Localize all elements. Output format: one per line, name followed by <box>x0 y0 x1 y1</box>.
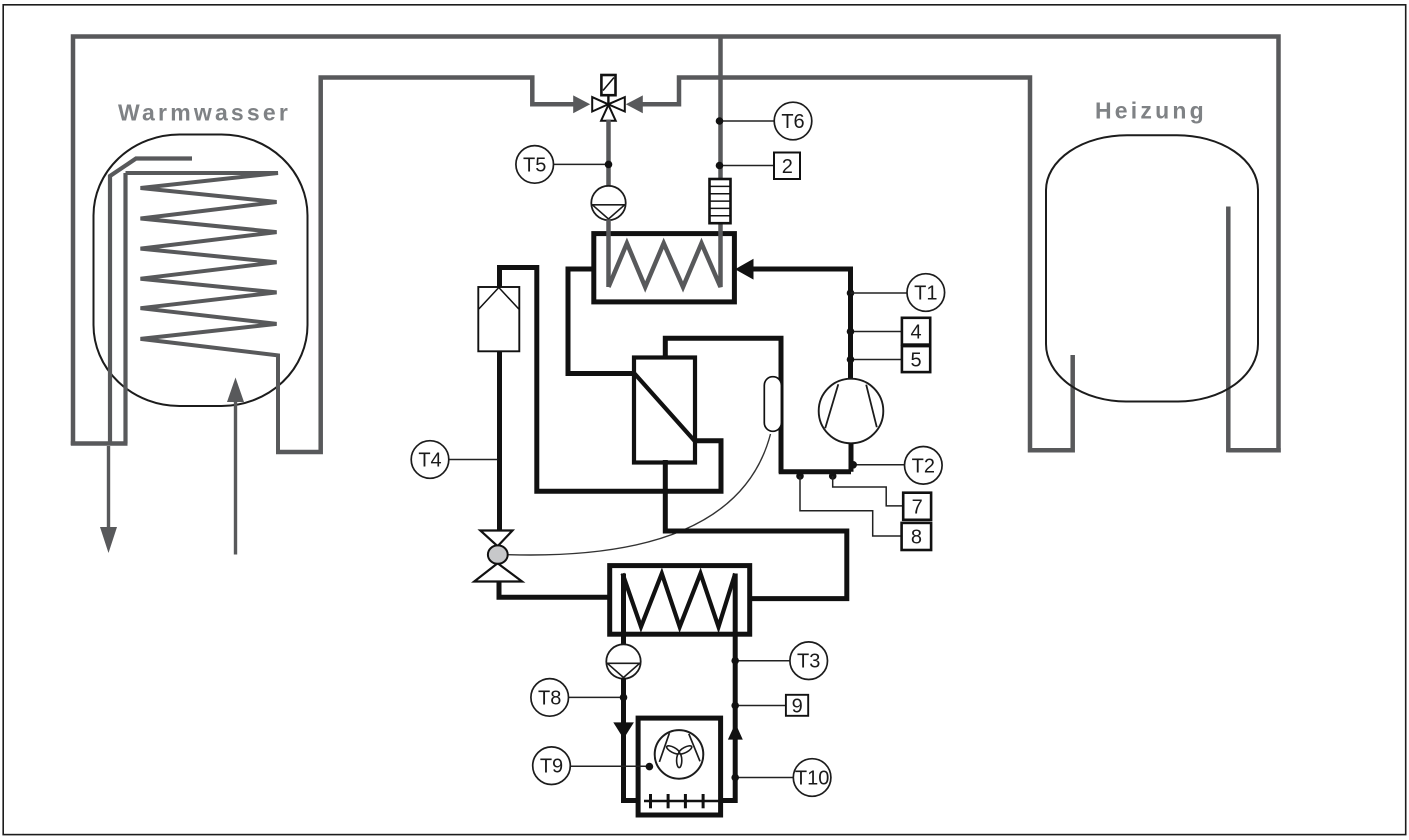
wire coil return pipe <box>123 173 127 444</box>
internal heat exchanger (plate) <box>634 358 695 463</box>
wire evaporator left pipe to pump <box>621 574 626 646</box>
svg-text:4: 4 <box>910 322 921 344</box>
sensor T5 <box>554 163 609 165</box>
svg-text:T6: T6 <box>781 111 804 133</box>
svg-text:2: 2 <box>782 156 793 178</box>
fan propeller <box>666 744 693 767</box>
svg-text:9: 9 <box>792 695 803 717</box>
compressor <box>819 379 884 444</box>
evaporator zigzag <box>623 574 736 627</box>
svg-text:T1: T1 <box>914 283 937 305</box>
expansion valve <box>480 531 512 547</box>
fan unit box <box>638 718 721 815</box>
wire valve to pump (gray) <box>606 120 611 188</box>
component flow switch (ribbed) <box>710 179 731 223</box>
wire hot water supply to valve <box>276 78 576 453</box>
condenser heat exchanger box <box>594 234 735 302</box>
filter drier <box>478 287 519 351</box>
wire expansion valve to evaporator <box>499 582 612 598</box>
evaporator heat exchanger box <box>610 566 750 635</box>
wire evaporator right pipe down <box>720 574 736 801</box>
sensor T1 <box>851 292 908 294</box>
wire Heizung right stub <box>1228 448 1280 453</box>
condenser water zigzag (gray) <box>609 37 721 288</box>
sensor T8 <box>569 696 624 698</box>
valve 3-way: left gray arrow <box>532 102 573 107</box>
sensor T9 <box>570 765 649 767</box>
valve actuator stem <box>607 95 609 104</box>
node 8 dot <box>796 472 804 480</box>
wire Heizung right dip pipe <box>1226 207 1231 453</box>
wire internal HX to compressor suction <box>665 338 781 473</box>
fan circle <box>655 730 704 779</box>
node 4 sensor box <box>851 331 902 333</box>
wire warmwasser bottom stub <box>71 441 128 446</box>
arrow into condenser <box>735 259 754 280</box>
valve 3-way: right gray arrow <box>626 95 643 113</box>
capillary line to bulb <box>506 434 771 555</box>
node 5 sensor box <box>851 359 902 361</box>
svg-text:5: 5 <box>910 350 921 372</box>
sensor T6 <box>720 120 776 122</box>
svg-text:Heizung: Heizung <box>1095 98 1207 124</box>
wire heating return from valve to Heizung tank <box>641 78 1073 451</box>
sensor bulb capsule on suction line <box>764 377 781 432</box>
sensor T10 <box>735 777 793 779</box>
sensor T3 <box>735 660 790 662</box>
fan unit coil hatch <box>644 800 722 802</box>
wire evaporator suction line <box>665 460 847 599</box>
wire water outer loop (gray) <box>73 37 1279 453</box>
tank Heizung outline <box>1046 135 1258 401</box>
sensor T2 <box>854 464 906 466</box>
svg-text:Warmwasser: Warmwasser <box>118 100 291 126</box>
wire pump down to fan unit <box>624 678 641 801</box>
tank Warmwasser outline <box>94 135 308 407</box>
wire liquid line to filter drier <box>500 268 722 492</box>
coil heat exchanger in Warmwasser tank <box>126 173 279 452</box>
wire compressor suction below <box>779 443 851 471</box>
svg-text:T10: T10 <box>795 768 829 790</box>
svg-text:T4: T4 <box>418 450 441 472</box>
node T1 dot <box>847 289 855 297</box>
node 2 sensor box <box>720 165 775 167</box>
svg-text:7: 7 <box>912 497 923 519</box>
pump P2 (brine) <box>606 644 640 678</box>
wire condenser out to internal HX <box>568 269 635 374</box>
svg-text:T2: T2 <box>912 455 935 477</box>
arrow down on left pipe <box>613 722 634 738</box>
wire filter drier to expansion valve <box>497 351 502 531</box>
valve 3-way body <box>592 97 608 111</box>
wire coil inlet pipe <box>110 159 192 444</box>
svg-text:T3: T3 <box>797 651 820 673</box>
arrow cold water inlet (up) <box>234 400 237 555</box>
pump P1 (Warmwasser loading) <box>591 186 625 220</box>
wire compressor discharge to condenser <box>752 269 851 381</box>
valve actuator box <box>601 75 615 95</box>
svg-text:T5: T5 <box>523 154 546 176</box>
sensor box 7 lead <box>833 476 904 506</box>
svg-text:8: 8 <box>911 527 922 549</box>
wire condenser inlet pipe segment (gray, inside box left) <box>606 220 611 288</box>
svg-text:T8: T8 <box>538 687 561 709</box>
sensor T4 <box>449 459 498 461</box>
svg-text:T9: T9 <box>540 756 563 778</box>
arrow DHW outlet (down) <box>107 446 110 528</box>
sensor box 8 lead <box>800 476 902 536</box>
node 7 dot <box>829 472 837 480</box>
node 9 sensor box <box>735 705 786 707</box>
arrow up on right pipe <box>728 723 743 739</box>
